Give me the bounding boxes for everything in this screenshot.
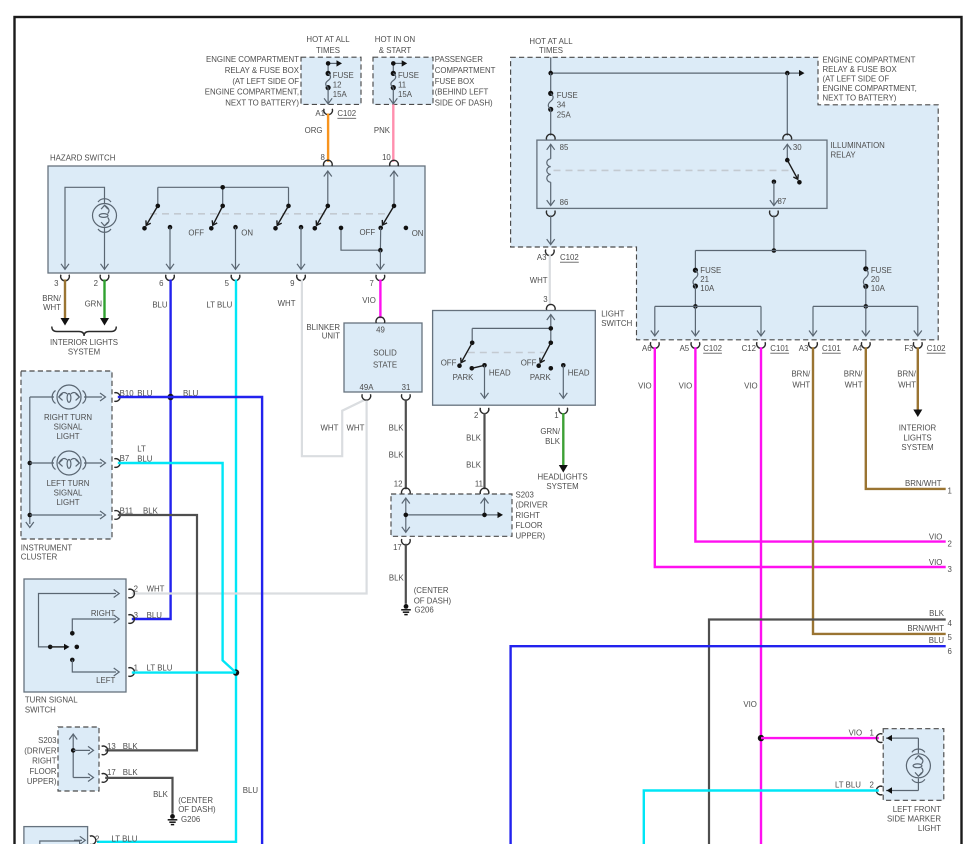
relay mech linkage dashed	[554, 169, 791, 171]
svg-text:2: 2	[95, 834, 99, 843]
svg-text:WHT: WHT	[321, 423, 339, 432]
label LIGHT SWITCH	[601, 310, 632, 328]
svg-text:(CENTER: (CENTER	[178, 796, 213, 805]
svg-text:C102: C102	[927, 344, 946, 353]
light switch connector pin 1	[554, 408, 567, 420]
svg-text:INTERIOR: INTERIOR	[899, 424, 937, 433]
svg-text:BRN/: BRN/	[897, 370, 917, 379]
svg-text:3: 3	[134, 611, 139, 620]
svg-text:NEXT TO BATTERY): NEXT TO BATTERY)	[225, 99, 299, 108]
label engine compartment fuse box (left text block)	[205, 55, 300, 108]
svg-text:A3: A3	[537, 253, 547, 262]
light switch internal feed	[472, 315, 555, 343]
wire BLK splice pin17 to ground G206	[105, 778, 172, 814]
splice S203 middle internal wiring	[402, 498, 503, 532]
svg-text:UNIT: UNIT	[322, 332, 341, 341]
splice S203 middle connector pin 12	[394, 480, 410, 494]
svg-text:12: 12	[333, 81, 342, 90]
wire VIO from A5 to right edge exit 2	[679, 347, 952, 548]
connector A6	[642, 342, 659, 353]
svg-text:FUSE: FUSE	[557, 91, 578, 100]
svg-text:12: 12	[394, 480, 403, 489]
wire GRN/BLK from light switch pin 1 to headlights system	[540, 413, 567, 473]
svg-text:10A: 10A	[871, 284, 886, 293]
front light connector pin 2	[90, 834, 138, 844]
svg-text:1: 1	[948, 487, 952, 496]
wire WHT from blinker 49A to turn signal switch pin 2	[132, 401, 367, 594]
relay connector pin 30 top	[783, 134, 792, 140]
splice S203 middle connector pin 17	[393, 539, 410, 552]
node HOT AT ALL TIMES (left)	[306, 35, 350, 55]
blinker connector 49	[376, 317, 385, 335]
svg-text:LIGHT: LIGHT	[56, 498, 79, 507]
svg-text:C12: C12	[742, 344, 756, 353]
svg-text:LT BLU: LT BLU	[147, 663, 173, 672]
svg-text:BLK: BLK	[123, 768, 139, 777]
relay coil 85-86	[547, 143, 569, 207]
wire GRN from hazard pin 2 to interior lights	[85, 280, 109, 326]
junction dot LT BLU	[233, 669, 239, 675]
TSS connector pin 1	[128, 663, 173, 676]
svg-text:SWITCH: SWITCH	[601, 319, 632, 328]
svg-text:(AT LEFT SIDE OF: (AT LEFT SIDE OF	[232, 77, 299, 86]
turn signal switch box	[24, 579, 126, 692]
svg-text:TIMES: TIMES	[539, 46, 563, 55]
svg-text:15A: 15A	[398, 90, 413, 99]
svg-text:ENGINE COMPARTMENT: ENGINE COMPARTMENT	[823, 55, 916, 64]
svg-text:49: 49	[376, 326, 385, 335]
label LEFT TURN SIGNAL LIGHT	[47, 479, 90, 507]
wire WHT from hazard pin 9 to blinker 49A	[278, 280, 366, 457]
svg-text:ON: ON	[241, 229, 253, 238]
svg-text:2: 2	[948, 539, 952, 548]
svg-text:WHT: WHT	[898, 381, 916, 390]
ground G206 (center of dash, lower)	[168, 796, 216, 825]
svg-text:BLK: BLK	[153, 790, 169, 799]
hazard bottom connector pin 5	[225, 275, 240, 288]
light switch right PARK contact	[530, 366, 553, 382]
svg-text:BLK: BLK	[389, 574, 405, 583]
svg-text:SIGNAL: SIGNAL	[54, 423, 83, 432]
relay connector pin 85 top	[546, 134, 555, 140]
svg-text:GRN/: GRN/	[540, 427, 560, 436]
svg-text:LIGHT: LIGHT	[56, 432, 79, 441]
svg-text:25A: 25A	[557, 110, 572, 119]
wire rail to relay pin 30 drop	[786, 73, 788, 136]
svg-text:17: 17	[107, 768, 116, 777]
svg-text:BLK: BLK	[123, 742, 139, 751]
wire power rail to relay pin 30	[548, 70, 804, 76]
light switch left pole blade	[459, 341, 475, 365]
hazard mech linkage dashed	[150, 213, 390, 215]
svg-text:FUSE: FUSE	[871, 266, 892, 275]
svg-text:WHT: WHT	[43, 303, 61, 312]
wire drop A3	[809, 306, 817, 336]
svg-text:A5: A5	[680, 344, 690, 353]
svg-text:85: 85	[560, 143, 569, 152]
wire drop A6	[651, 306, 659, 336]
turn signal switch pin1 internal wire	[70, 658, 119, 685]
svg-text:BLK: BLK	[389, 450, 405, 459]
wire BLK pin 17 to ground G206 center of dash	[389, 544, 406, 604]
svg-text:HEADLIGHTS: HEADLIGHTS	[537, 473, 587, 482]
svg-text:VIO: VIO	[362, 296, 376, 305]
side marker connector pin 2	[876, 786, 882, 795]
svg-text:LT BLU: LT BLU	[835, 780, 861, 789]
hazard switch pole E fed by pin 10	[380, 171, 398, 226]
svg-text:A1: A1	[315, 109, 325, 118]
turn signal switch wiper	[50, 644, 79, 650]
junction dot VIO side marker feed	[758, 735, 764, 741]
svg-text:2: 2	[474, 411, 478, 420]
svg-text:SIGNAL: SIGNAL	[54, 489, 83, 498]
hazard switch pole B with OFF/ON contacts	[188, 204, 225, 238]
label INSTRUMENT CLUSTER	[21, 544, 73, 562]
svg-text:SIDE OF DASH): SIDE OF DASH)	[435, 99, 493, 108]
front light inner box	[40, 841, 80, 844]
svg-text:WHT: WHT	[530, 276, 548, 285]
light switch left PARK contact	[453, 365, 485, 382]
hazard bottom connector pin 2	[94, 275, 109, 288]
svg-text:FLOOR: FLOOR	[516, 521, 543, 530]
light switch left OFF contact	[441, 359, 462, 369]
svg-text:HOT AT ALL: HOT AT ALL	[529, 37, 573, 46]
hazard top connector pin 10	[382, 153, 398, 166]
svg-text:RELAY: RELAY	[831, 150, 857, 159]
svg-text:HOT IN ON: HOT IN ON	[375, 35, 416, 44]
svg-text:LEFT: LEFT	[96, 676, 115, 685]
hazard pin 9 contact and wire	[297, 225, 305, 269]
splice left connector pin 13	[102, 742, 139, 755]
svg-text:HOT AT ALL: HOT AT ALL	[306, 35, 350, 44]
hazard pin7 U-link wire	[339, 226, 385, 270]
front turn signal light box (cut off)	[24, 827, 88, 844]
svg-text:WHT: WHT	[278, 299, 296, 308]
wire drop A4	[862, 306, 870, 336]
svg-text:5: 5	[225, 279, 230, 288]
wire BLU B10 to junction and down page	[118, 397, 262, 844]
svg-text:LT BLU: LT BLU	[206, 301, 232, 310]
fuse F34 25A	[548, 73, 578, 119]
svg-text:A4: A4	[853, 344, 863, 353]
hazard bottom connector pin 3	[54, 275, 69, 288]
svg-text:3: 3	[54, 279, 59, 288]
wire BRN/WHT from A4 to right edge exit 1	[844, 347, 952, 495]
svg-text:13: 13	[107, 742, 116, 751]
svg-text:17: 17	[393, 543, 402, 552]
svg-text:2: 2	[134, 585, 138, 594]
svg-text:11: 11	[398, 81, 406, 90]
svg-text:UPPER): UPPER)	[27, 777, 57, 786]
svg-text:4: 4	[948, 619, 953, 628]
wire ORG from C102 to hazard pin 8	[305, 114, 328, 162]
svg-text:BRN/WHT: BRN/WHT	[907, 624, 944, 633]
label TURN SIGNAL SWITCH	[25, 696, 78, 715]
connector A3 C102 at engine box exit	[537, 250, 579, 262]
light switch connector pin 2	[474, 408, 489, 420]
wire LT BLU from page bottom to side marker pin 2	[644, 780, 879, 844]
svg-text:SYSTEM: SYSTEM	[68, 347, 100, 356]
wire WHT from A3 C102 to light switch pin 3	[530, 254, 550, 305]
label RIGHT TURN SIGNAL LIGHT	[44, 413, 92, 441]
fuse F11 15A	[391, 71, 419, 99]
svg-text:UPPER): UPPER)	[516, 531, 546, 540]
light switch mech linkage dashed	[468, 352, 545, 354]
label S203 DRIVER RIGHT FLOOR UPPER (left)	[24, 736, 57, 786]
wire VIO to left front side marker pin 1	[761, 728, 879, 738]
svg-text:NEXT TO BATTERY): NEXT TO BATTERY)	[823, 94, 897, 103]
junction dot BLU at instrument cluster feed	[167, 394, 173, 400]
svg-text:PARK: PARK	[530, 373, 552, 382]
svg-text:TIMES: TIMES	[316, 46, 340, 55]
blinker pin labels 49A and 31	[360, 383, 411, 392]
hazard bottom connector pin 7	[370, 275, 385, 288]
connector A4	[853, 342, 871, 353]
svg-text:PARK: PARK	[453, 373, 475, 382]
relay connector pin 87 bottom	[770, 211, 779, 217]
instrument cluster internal bus	[26, 397, 34, 528]
svg-text:SYSTEM: SYSTEM	[901, 443, 933, 452]
svg-text:(DRIVER: (DRIVER	[24, 746, 57, 755]
blinker unit box	[344, 323, 422, 392]
svg-text:8: 8	[321, 153, 326, 162]
label passenger compartment fuse box text	[435, 55, 496, 108]
svg-text:BLK: BLK	[466, 461, 482, 470]
hazard indicator lamp	[93, 199, 117, 233]
wire drop A5	[691, 306, 699, 336]
svg-text:1: 1	[870, 728, 874, 737]
svg-text:(DRIVER: (DRIVER	[516, 501, 549, 510]
wire LT BLU from B7 to junction	[118, 463, 236, 673]
svg-text:HEAD: HEAD	[568, 368, 590, 377]
svg-text:C101: C101	[770, 344, 789, 353]
svg-text:FLOOR: FLOOR	[29, 767, 56, 776]
left turn signal light wiring	[30, 459, 106, 467]
svg-text:ENGINE COMPARTMENT: ENGINE COMPARTMENT	[206, 55, 299, 64]
turn signal switch pin3 internal wire	[70, 609, 119, 636]
hazard top connector pin 8	[321, 153, 333, 166]
splice S203 left internal wiring	[69, 734, 93, 782]
wire fuse12 to box edge with arrow	[324, 88, 332, 104]
svg-text:OFF: OFF	[360, 228, 376, 237]
svg-text:BRN/: BRN/	[42, 294, 62, 303]
svg-text:LT: LT	[137, 445, 146, 454]
svg-text:FUSE: FUSE	[700, 266, 721, 275]
side marker bulb	[906, 749, 930, 783]
svg-text:VIO: VIO	[929, 558, 943, 567]
wire BLK from B11 to splice S203 pin 13	[105, 515, 197, 750]
svg-text:& START: & START	[379, 46, 412, 55]
light switch right OFF contact	[521, 359, 541, 369]
wire fuse34 to relay pin 85	[550, 109, 552, 135]
label HEADLIGHTS SYSTEM	[537, 473, 587, 492]
engine compartment fuse box 1 (dashed)	[301, 57, 361, 104]
svg-text:VIO: VIO	[744, 382, 758, 391]
svg-text:(CENTER: (CENTER	[414, 586, 449, 595]
wire VIO from A6 to right edge exit 3	[638, 347, 952, 574]
label ILLUMINATION RELAY	[831, 141, 886, 159]
wire drop F3	[914, 306, 922, 336]
wire BLU from page bottom to right edge exit 6	[511, 636, 953, 844]
svg-text:LT BLU: LT BLU	[112, 834, 138, 843]
connector A1 C102	[315, 109, 356, 118]
svg-text:21: 21	[700, 275, 709, 284]
connector A3 C101	[799, 342, 841, 353]
svg-text:SIDE MARKER: SIDE MARKER	[887, 814, 941, 823]
splice S203 middle box (dashed)	[391, 494, 512, 536]
svg-text:VIO: VIO	[929, 532, 943, 541]
svg-text:49A: 49A	[360, 383, 375, 392]
hazard pin 5 ON contact and wire	[232, 225, 254, 269]
svg-text:WHT: WHT	[845, 381, 863, 390]
relay contact 87	[770, 180, 786, 207]
svg-text:B7: B7	[120, 454, 130, 463]
svg-text:6: 6	[159, 279, 164, 288]
cluster connector B7	[114, 445, 152, 468]
svg-text:7: 7	[370, 279, 374, 288]
wire relay 86 to A3 exit	[547, 215, 555, 244]
svg-text:VIO: VIO	[638, 382, 652, 391]
svg-text:ENGINE COMPARTMENT,: ENGINE COMPARTMENT,	[823, 84, 917, 93]
label LEFT FRONT SIDE MARKER LIGHT	[887, 805, 941, 833]
svg-text:(BEHIND LEFT: (BEHIND LEFT	[435, 88, 489, 97]
light switch right pole blade	[538, 341, 553, 365]
svg-text:VIO: VIO	[743, 700, 757, 709]
svg-text:2: 2	[870, 780, 874, 789]
brace interior lights	[52, 327, 117, 337]
illumination relay box	[537, 140, 827, 208]
hazard switch pole A (pin6 side)	[142, 204, 160, 231]
wire fuse11 to box edge with arrow	[389, 88, 397, 104]
hazard switch pole D fed by pin 8	[313, 171, 332, 231]
svg-text:BRN/: BRN/	[844, 370, 864, 379]
svg-text:BLK: BLK	[545, 437, 561, 446]
svg-text:3: 3	[543, 295, 548, 304]
svg-text:FUSE BOX: FUSE BOX	[435, 77, 475, 86]
splice S203 left box (dashed)	[58, 727, 99, 791]
svg-text:RIGHT TURN: RIGHT TURN	[44, 413, 92, 422]
connector F3 C102	[904, 342, 945, 353]
svg-text:6: 6	[948, 647, 953, 656]
svg-text:ILLUMINATION: ILLUMINATION	[831, 141, 886, 150]
hazard switch lamp wiring	[61, 187, 109, 269]
wire LT BLU TSS pin1 to junction	[132, 671, 236, 673]
wire drop C12	[757, 306, 765, 336]
svg-text:C101: C101	[822, 344, 841, 353]
svg-text:BRN/: BRN/	[791, 370, 811, 379]
svg-text:BLU: BLU	[929, 636, 945, 645]
wire BLK from blinker 31 to splice S203 pin 12	[389, 401, 406, 489]
wire BRN/WHT from hazard pin 3 to interior lights	[42, 280, 69, 326]
wire bus stub in fuse box 2	[391, 60, 407, 73]
label INTERIOR LIGHTS SYSTEM (left)	[50, 338, 118, 356]
svg-text:15A: 15A	[333, 90, 348, 99]
svg-text:BLU: BLU	[147, 611, 163, 620]
svg-text:10: 10	[382, 153, 391, 162]
label BLINKER UNIT	[306, 323, 340, 341]
cluster connector B11	[114, 507, 158, 520]
svg-text:87: 87	[778, 197, 787, 206]
svg-text:20: 20	[871, 275, 880, 284]
svg-text:HAZARD SWITCH: HAZARD SWITCH	[50, 154, 116, 163]
side marker internal wiring	[886, 735, 918, 794]
svg-text:BLU: BLU	[243, 786, 259, 795]
hazard switch box	[48, 166, 425, 273]
svg-text:PNK: PNK	[374, 126, 391, 135]
wire BLK from light switch pin 2 to splice pin 11	[466, 413, 484, 489]
label engine compartment fuse box (right text block)	[823, 55, 917, 102]
blinker connector 31	[401, 394, 410, 400]
svg-text:A3: A3	[799, 344, 809, 353]
svg-text:STATE: STATE	[373, 360, 397, 369]
TSS connector pin 2	[128, 585, 164, 598]
svg-text:WHT: WHT	[347, 423, 365, 432]
node HOT AT ALL TIMES (right)	[529, 37, 573, 55]
splice S203 middle connector pin 11	[475, 480, 489, 494]
svg-text:LIGHT: LIGHT	[601, 310, 624, 319]
svg-text:3: 3	[948, 565, 953, 574]
svg-text:OFF: OFF	[441, 359, 457, 368]
svg-text:BLU: BLU	[183, 389, 199, 398]
svg-text:F3: F3	[904, 344, 914, 353]
svg-text:34: 34	[557, 101, 566, 110]
svg-text:1: 1	[554, 411, 558, 420]
svg-text:SOLID: SOLID	[373, 349, 397, 358]
svg-text:BLU: BLU	[152, 301, 168, 310]
svg-text:C102: C102	[703, 344, 722, 353]
wire fuse20 to distribution bar	[813, 286, 918, 308]
relay connector pin 86 bottom	[546, 211, 555, 217]
engine compartment relay and fuse box (big dashed)	[511, 57, 939, 340]
svg-text:PASSENGER: PASSENGER	[435, 55, 484, 64]
wire BLK from page bottom to right edge exit 4	[709, 609, 953, 844]
svg-text:WHT: WHT	[792, 381, 810, 390]
connector A5 C102	[680, 342, 722, 353]
hazard switch pole C (pin9 side)	[273, 204, 291, 231]
wire BRN/WHT from F3 to interior lights system	[897, 347, 922, 417]
connector C12 C101	[742, 342, 789, 353]
svg-text:COMPARTMENT: COMPARTMENT	[435, 66, 496, 75]
svg-text:31: 31	[402, 383, 411, 392]
svg-text:SWITCH: SWITCH	[25, 705, 56, 714]
svg-text:LIGHTS: LIGHTS	[903, 433, 931, 442]
svg-text:C102: C102	[560, 253, 579, 262]
svg-text:HEAD: HEAD	[489, 368, 511, 377]
TSS connector pin 3	[128, 611, 162, 624]
light switch connector pin 3	[543, 295, 555, 310]
cluster connector B10	[114, 389, 152, 401]
svg-text:S203: S203	[516, 491, 535, 500]
svg-text:FUSE: FUSE	[398, 71, 419, 80]
svg-text:S203: S203	[38, 736, 57, 745]
svg-text:WHT: WHT	[147, 585, 165, 594]
front light pin 2 wire	[74, 836, 85, 844]
svg-text:OF DASH): OF DASH)	[178, 805, 216, 814]
side marker connector pin 1	[876, 734, 882, 743]
svg-text:RELAY & FUSE BOX: RELAY & FUSE BOX	[225, 66, 300, 75]
fuse F21 10A	[693, 251, 721, 294]
wire BLU from hazard pin 6 to turn signal switch pin 3	[132, 280, 171, 620]
wire VIO from hazard pin 7 to blinker 49	[362, 280, 380, 319]
svg-text:RELAY & FUSE BOX: RELAY & FUSE BOX	[823, 65, 898, 74]
svg-text:BRN/WHT: BRN/WHT	[905, 479, 942, 488]
svg-text:GRN: GRN	[85, 300, 103, 309]
cluster B11 wiring	[30, 511, 106, 519]
svg-text:(AT LEFT SIDE OF: (AT LEFT SIDE OF	[823, 75, 890, 84]
svg-text:INTERIOR LIGHTS: INTERIOR LIGHTS	[50, 338, 118, 347]
wire LT BLU from hazard pin 5 down to junction	[206, 280, 236, 673]
svg-text:BLK: BLK	[466, 434, 482, 443]
